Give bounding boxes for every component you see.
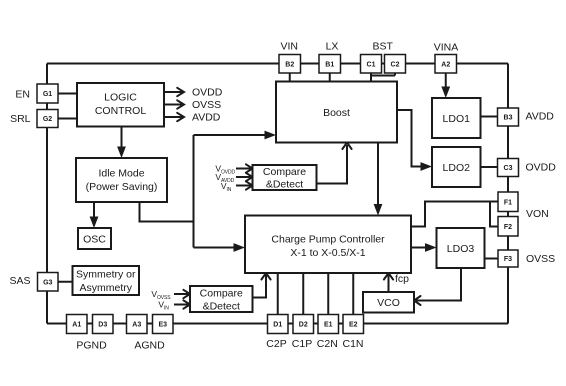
- svg-text:AVDD: AVDD: [192, 112, 221, 124]
- svg-text:&Detect: &Detect: [203, 301, 240, 313]
- svg-text:F1: F1: [504, 199, 512, 206]
- svg-text:C3: C3: [504, 165, 513, 172]
- svg-text:D2: D2: [299, 322, 308, 329]
- svg-text:LOGIC: LOGIC: [104, 92, 137, 104]
- svg-text:Compare: Compare: [263, 166, 306, 178]
- svg-text:EN: EN: [15, 89, 30, 101]
- svg-text:OVDD: OVDD: [526, 162, 557, 174]
- svg-text:SAS: SAS: [9, 275, 30, 287]
- svg-text:VINA: VINA: [434, 42, 459, 54]
- svg-text:C2: C2: [391, 61, 400, 68]
- svg-text:VCO: VCO: [377, 297, 400, 309]
- svg-text:Compare: Compare: [200, 288, 243, 300]
- svg-text:Charge Pump Controller: Charge Pump Controller: [271, 234, 385, 246]
- svg-text:C2P: C2P: [266, 338, 286, 350]
- svg-text:OVDD: OVDD: [221, 170, 236, 176]
- svg-text:E3: E3: [158, 322, 167, 329]
- svg-text:D3: D3: [98, 322, 107, 329]
- svg-text:(Power Saving): (Power Saving): [86, 181, 158, 193]
- svg-text:Idle Mode: Idle Mode: [98, 168, 144, 180]
- svg-text:LDO2: LDO2: [443, 162, 471, 174]
- svg-text:D1: D1: [273, 322, 282, 329]
- svg-text:X-1 to X-0.5/X-1: X-1 to X-0.5/X-1: [290, 247, 365, 259]
- svg-text:B1: B1: [325, 61, 334, 68]
- svg-text:IN: IN: [164, 306, 169, 312]
- svg-text:A2: A2: [441, 61, 450, 68]
- svg-text:LDO3: LDO3: [447, 243, 475, 255]
- svg-text:AGND: AGND: [134, 340, 165, 352]
- svg-text:C1: C1: [367, 61, 376, 68]
- svg-text:G1: G1: [43, 91, 52, 98]
- svg-text:LDO1: LDO1: [443, 113, 471, 125]
- svg-text:B2: B2: [285, 61, 294, 68]
- svg-text:A3: A3: [132, 322, 141, 329]
- svg-text:F3: F3: [504, 256, 512, 263]
- svg-text:Asymmetry: Asymmetry: [80, 282, 133, 294]
- svg-text:PGND: PGND: [76, 340, 107, 352]
- svg-text:Boost: Boost: [323, 107, 350, 119]
- svg-text:SRL: SRL: [10, 113, 31, 125]
- svg-text:OVSS: OVSS: [192, 99, 221, 111]
- svg-text:fcp: fcp: [395, 273, 409, 285]
- svg-text:CONTROL: CONTROL: [95, 105, 146, 117]
- svg-text:C2N: C2N: [317, 338, 338, 350]
- svg-text:&Detect: &Detect: [266, 179, 303, 191]
- svg-text:BST: BST: [372, 41, 393, 53]
- svg-text:AVDD: AVDD: [526, 111, 555, 123]
- svg-text:G2: G2: [43, 116, 52, 123]
- svg-text:LX: LX: [326, 41, 339, 53]
- svg-text:E2: E2: [349, 322, 358, 329]
- svg-text:B3: B3: [504, 115, 513, 122]
- svg-text:C1N: C1N: [342, 338, 363, 350]
- svg-text:VON: VON: [526, 208, 549, 220]
- svg-text:VIN: VIN: [280, 41, 298, 53]
- svg-text:OVDD: OVDD: [192, 87, 223, 99]
- svg-text:Symmetry or: Symmetry or: [76, 269, 136, 281]
- svg-text:OVSS: OVSS: [526, 253, 555, 265]
- svg-text:F2: F2: [504, 224, 512, 231]
- svg-text:C1P: C1P: [292, 338, 312, 350]
- svg-text:OSC: OSC: [83, 234, 106, 246]
- svg-text:E1: E1: [324, 322, 333, 329]
- svg-text:A1: A1: [72, 322, 81, 329]
- svg-text:IN: IN: [227, 187, 232, 193]
- svg-text:G3: G3: [43, 279, 52, 286]
